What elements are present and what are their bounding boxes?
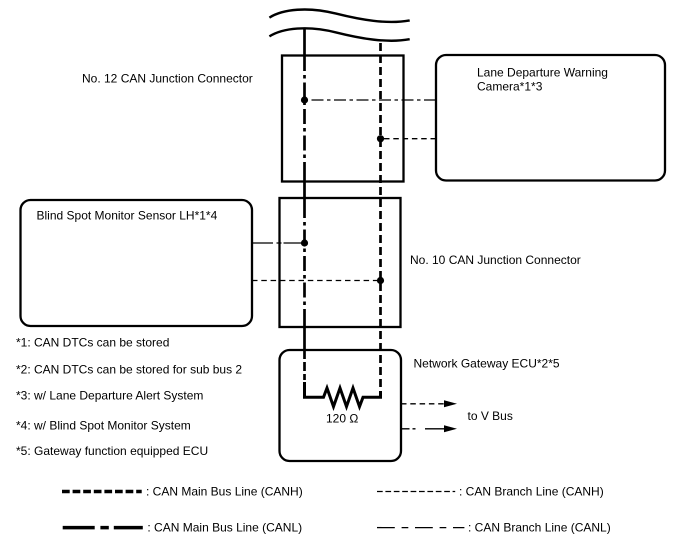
svg-text:*1: CAN DTCs can be stored: *1: CAN DTCs can be stored xyxy=(16,336,169,350)
resistor R 120 ohm with leads xyxy=(305,382,381,407)
arrow to V Bus CANL (dash-dot) xyxy=(401,428,446,430)
svg-text:*5: Gateway function equipped: *5: Gateway function equipped ECU xyxy=(16,444,208,458)
svg-text:*4: w/ Blind Spot Monitor Syst: *4: w/ Blind Spot Monitor System xyxy=(16,419,191,433)
svg-text:: CAN Main Bus Line (CANL): : CAN Main Bus Line (CANL) xyxy=(147,521,302,535)
branch CANL to camera (dash-dot thin) xyxy=(305,99,437,101)
wire CANL main solid between No.10 and gateway xyxy=(303,324,306,352)
svg-text:*3: w/ Lane Departure Alert Sy: *3: w/ Lane Departure Alert System xyxy=(16,389,203,403)
legend CAN branch CANL sample line xyxy=(377,527,464,529)
svg-text:*2: CAN DTCs can be stored for: *2: CAN DTCs can be stored for sub bus 2 xyxy=(16,363,242,377)
wire CANL main dash-dot inside No.10 box xyxy=(303,203,306,324)
arrowhead CANL xyxy=(444,425,457,432)
wire CANL main dash-dot inside No.12 box xyxy=(303,56,306,177)
wire CANL main dash-dot inside gateway xyxy=(303,352,306,384)
legend CAN branch CANH sample line xyxy=(377,491,455,493)
legend CAN main bus CANH sample line xyxy=(62,490,142,494)
No. 12 CAN junction connector box xyxy=(282,56,404,182)
node junction dot CANH in No.10 xyxy=(377,277,384,284)
No. 10 CAN junction connector box xyxy=(280,198,401,327)
svg-text:Network Gateway ECU*2*5: Network Gateway ECU*2*5 xyxy=(414,357,560,371)
svg-text:No. 10 CAN Junction Connector: No. 10 CAN Junction Connector xyxy=(410,253,581,267)
Blind Spot Monitor Sensor box xyxy=(21,200,253,326)
svg-text:No. 12 CAN Junction Connector: No. 12 CAN Junction Connector xyxy=(82,72,253,86)
svg-text:: CAN Main Bus Line (CANH): : CAN Main Bus Line (CANH) xyxy=(146,485,303,499)
wire CANL main solid between boxes xyxy=(303,177,306,203)
branch CANL from blind spot sensor (dash-dot thin) xyxy=(252,242,305,244)
node junction dot CANH in No.12 xyxy=(377,135,384,142)
svg-text:Blind Spot Monitor Sensor LH*1: Blind Spot Monitor Sensor LH*1*4 xyxy=(37,209,218,223)
wire CANL main solid above No.12 box xyxy=(303,30,306,57)
svg-text:to V Bus: to V Bus xyxy=(468,409,513,423)
break wave top xyxy=(269,10,409,22)
node junction dot CANL in No.12 xyxy=(301,96,308,103)
arrow to V Bus CANH (dashed) xyxy=(401,403,446,405)
branch CANH from blind spot sensor (dashed thin) xyxy=(252,280,381,282)
arrowhead CANH xyxy=(444,400,457,407)
legend CAN main bus CANL sample line xyxy=(63,526,143,530)
node junction dot CANL in No.10 xyxy=(301,239,308,246)
svg-text:120 Ω: 120 Ω xyxy=(326,412,358,426)
svg-text:: CAN Branch Line (CANH): : CAN Branch Line (CANH) xyxy=(459,485,604,499)
branch CANH to camera (dashed thin) xyxy=(381,138,437,140)
break wave bottom xyxy=(269,28,409,40)
svg-text:: CAN Branch Line (CANL): : CAN Branch Line (CANL) xyxy=(468,521,611,535)
wire CANH main dashed vertical xyxy=(379,43,382,392)
svg-text:Camera*1*3: Camera*1*3 xyxy=(477,80,543,94)
Network Gateway ECU box xyxy=(280,350,402,461)
svg-text:Lane Departure Warning: Lane Departure Warning xyxy=(477,66,608,80)
Lane Departure Warning Camera box xyxy=(436,55,665,181)
